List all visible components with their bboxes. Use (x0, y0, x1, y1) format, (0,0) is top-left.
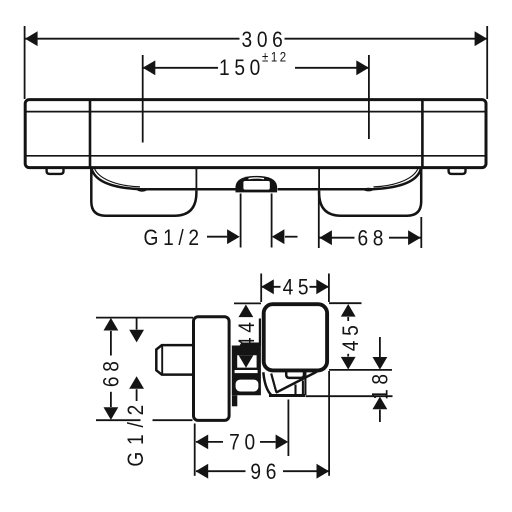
handle square (264, 304, 327, 370)
G1/2 arrow right-pointing (227, 229, 240, 244)
dim 68 line bits (110, 331, 112, 356)
dim 70 right extension (287, 400, 289, 457)
svg-text:45: 45 (283, 275, 314, 300)
dim 45 right ref top (329, 302, 362, 304)
dim 150 arrow right (356, 60, 369, 75)
stem hardware black mass (232, 343, 261, 396)
outlet white window (243, 181, 269, 190)
dim 68 up arrow (104, 318, 119, 331)
dim 44 down arrow (239, 355, 254, 368)
dim 150 extension left (142, 55, 144, 143)
diverter left closing curve (263, 372, 271, 395)
dim 45 top line (262, 286, 281, 288)
dim 45 right line bits (347, 317, 349, 321)
dim 45 top extension left (260, 274, 262, 303)
dim 45 top extension right (328, 274, 330, 303)
diverter notch line 2 (302, 381, 304, 396)
right wall tab (449, 168, 466, 174)
svg-text:68: 68 (99, 356, 124, 387)
outlet dome (hose connection) (236, 176, 278, 193)
svg-text:±12: ±12 (262, 50, 289, 65)
diverter steep inner line (271, 374, 276, 393)
left end-cap line (89, 100, 92, 167)
dim 68 left ref bottom (96, 419, 141, 421)
handle bottom tab (286, 371, 304, 378)
svg-text:44: 44 (235, 317, 260, 348)
dim 96 arrow left (196, 464, 209, 479)
dim 306 extension line left (24, 26, 26, 99)
dim 18 upper down arrow (373, 357, 388, 370)
dim 306 arrow left (25, 31, 38, 46)
right bracket inner curve (374, 168, 419, 187)
G1/2 side up arrow (129, 376, 144, 389)
left bracket outline (91, 168, 196, 215)
G1/2 side down arrow (129, 330, 144, 343)
dim 70/96 left extension (194, 424, 196, 476)
left wall tab (47, 168, 64, 174)
dim 68 left ref top (96, 317, 193, 319)
dim 68 arrow right (408, 230, 421, 245)
dim 45 right ref bottom (329, 369, 392, 371)
right bracket outline (319, 168, 421, 215)
outlet white top arc (249, 177, 265, 180)
mixer bar body outline (25, 100, 486, 168)
svg-text:70: 70 (229, 430, 260, 455)
dim 68 extension left (318, 191, 320, 248)
dim 70 arrow right (276, 435, 289, 450)
right end-cap line (421, 100, 424, 167)
hardware white rounded slot (236, 380, 259, 392)
dim 70 line (196, 441, 223, 443)
dim 70 arrow left (196, 435, 209, 450)
dim 306 arrow right (475, 31, 488, 46)
dim 44 top reference line (234, 302, 261, 304)
outlet extension line left (240, 194, 242, 248)
dim 306 line (25, 38, 240, 40)
diverter right edge (304, 372, 306, 395)
bar inner top line (26, 111, 487, 113)
dim 68 extension right (420, 217, 422, 248)
svg-text:96: 96 (250, 460, 281, 485)
thread connector G1/2 (156, 345, 193, 375)
dim 18 lower tail (379, 410, 381, 422)
G1/2 opposing arrow tail (285, 236, 298, 238)
G1/2 dim line (207, 236, 227, 238)
dim 45 right down arrow (341, 357, 356, 370)
G1/2 opposing arrow left-pointing (272, 229, 285, 244)
dim 96 right extension (328, 371, 330, 476)
G1/2 side upper tail (136, 318, 138, 330)
hardware white notch (237, 355, 256, 367)
dim 18 lower up arrow (373, 397, 388, 410)
svg-text:68: 68 (357, 226, 388, 251)
left body edge line (195, 168, 197, 190)
diverter diagonal (276, 372, 317, 393)
svg-text:306: 306 (242, 28, 288, 53)
svg-text:G1/2: G1/2 (124, 398, 149, 467)
svg-text:G1/2: G1/2 (144, 226, 204, 251)
right body edge line (318, 168, 320, 190)
dim 44 up arrow (239, 305, 254, 318)
dim 68 line (319, 237, 354, 239)
left bracket inner curve (94, 168, 140, 187)
diverter notch line 1 (294, 385, 296, 396)
G1/2 side lower tail (136, 389, 138, 401)
bar inner bottom line (26, 155, 487, 157)
svg-text:150: 150 (219, 55, 265, 80)
hardware white slot (235, 370, 258, 373)
hardware foot (232, 395, 237, 406)
right shelf dot (364, 188, 374, 192)
dim 96 line (196, 470, 246, 472)
outlet extension line right (271, 194, 273, 248)
dim 150 extension right (368, 55, 370, 139)
dim 68 down arrow (104, 407, 119, 420)
right bracket top curve + shelf (278, 168, 422, 189)
dim 18 lower ref line (306, 395, 393, 397)
stem housing edge line (259, 319, 261, 347)
dim 45 top arrow right (316, 279, 329, 294)
thread chamfer line (161, 346, 163, 375)
dim 150 line (143, 67, 218, 69)
dim 45 right up arrow (341, 304, 356, 317)
dim 18 upper tail (379, 337, 381, 357)
diverter lower shape bottom edge (269, 394, 306, 397)
dim 306 extension line right (486, 26, 488, 99)
dim 68 arrow left (319, 230, 332, 245)
dim 150 arrow left (143, 60, 156, 75)
dim 45 top arrow left (261, 279, 274, 294)
left bracket top curve + shelf (92, 168, 236, 189)
body pill (side view of bar) (194, 317, 230, 421)
svg-text:45: 45 (338, 321, 363, 352)
dim 96 arrow right (317, 464, 330, 479)
left shelf dot (137, 188, 147, 192)
